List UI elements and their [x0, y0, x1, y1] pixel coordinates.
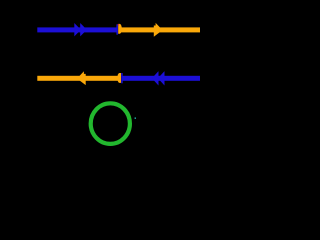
- wire: row 2 orange segment: [37, 76, 119, 81]
- node: row 2 orange rounded cap: [117, 73, 121, 83]
- node: green circle: [91, 103, 130, 144]
- node: row 2 blue double chevron pointing left: [152, 71, 159, 85]
- node: row 1 blue end bar: [116, 24, 118, 34]
- node: row 2 orange triangle arrowhead left: [77, 71, 85, 85]
- wire: row 1 blue segment: [37, 27, 117, 32]
- node: row 1 orange rounded cap: [118, 24, 122, 34]
- node: red dot artifact: [118, 24, 119, 25]
- node: row 1 blue double chevron pointing right: [74, 23, 81, 36]
- wire: row 1 orange segment: [121, 27, 200, 32]
- wire: row 2 blue segment: [122, 76, 201, 81]
- node: row 2 blue end bar: [121, 73, 123, 83]
- node: cyan dot: [135, 118, 136, 119]
- node: row 1 orange triangle arrowhead right: [154, 23, 162, 37]
